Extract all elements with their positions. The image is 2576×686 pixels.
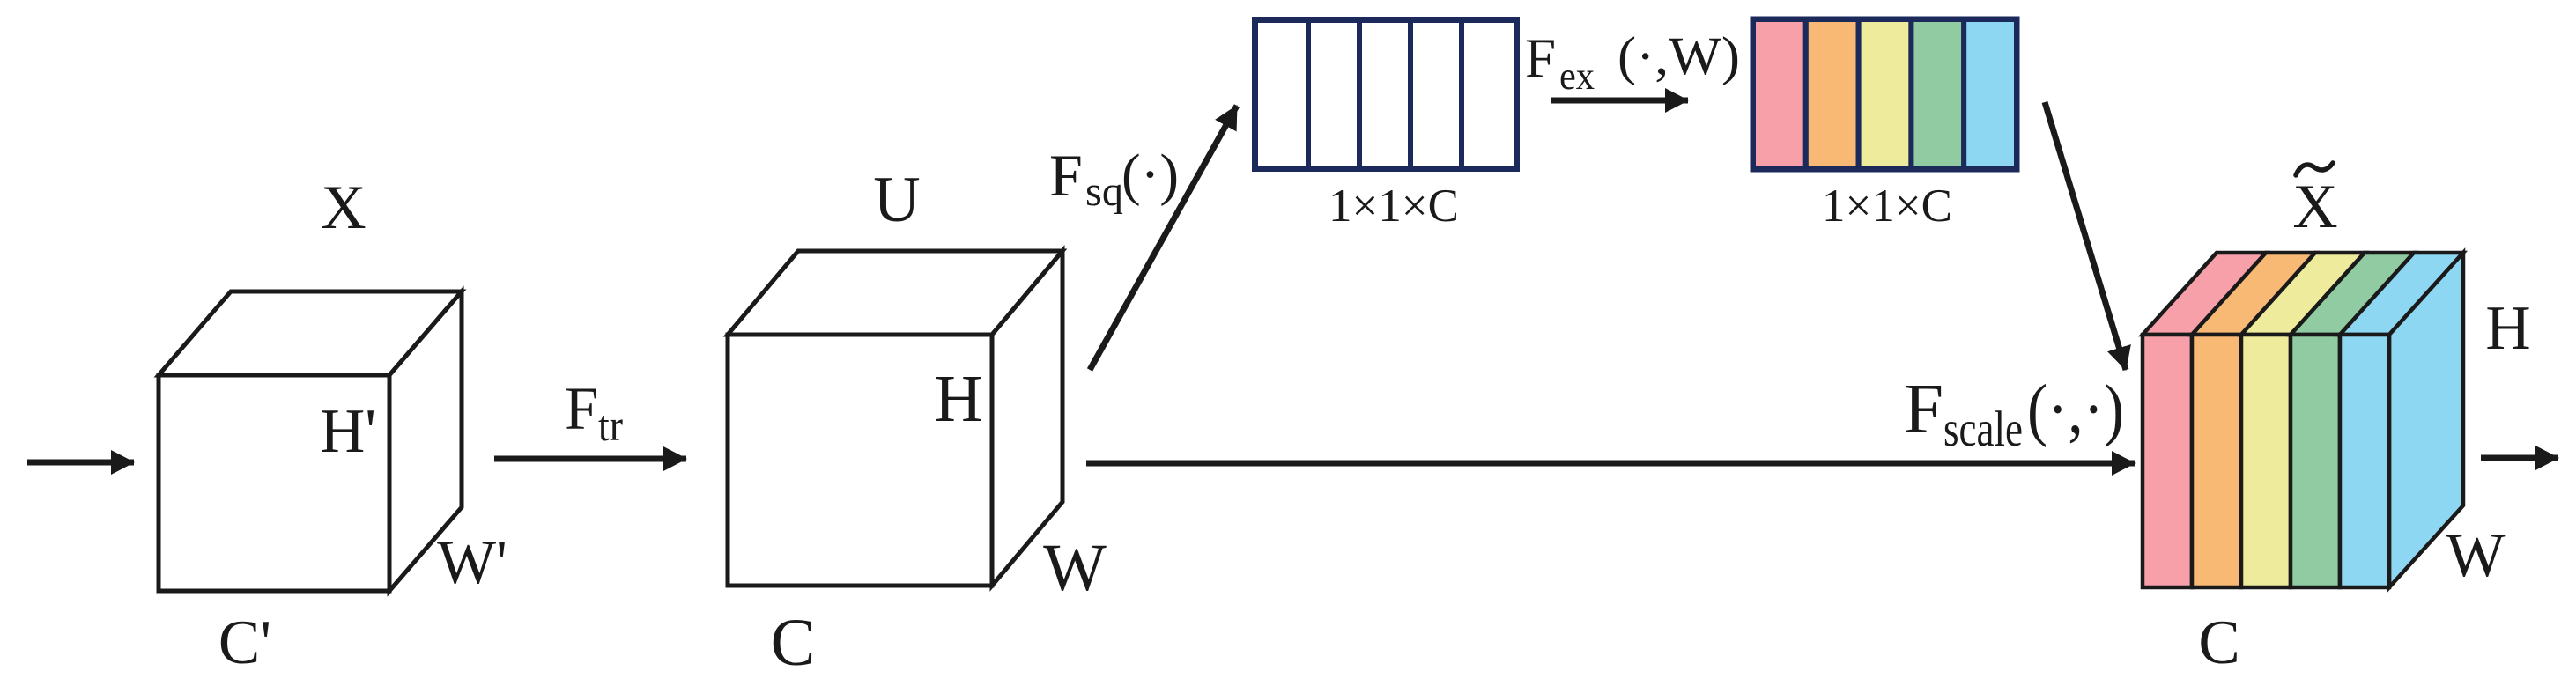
svg-text:X: X <box>321 173 366 242</box>
svg-text:F: F <box>565 375 598 442</box>
svg-text:C': C' <box>218 609 271 677</box>
scaled output cube slabs <box>2143 253 2463 587</box>
wire input arrow <box>27 460 134 466</box>
wire F_scale long arrow <box>1086 461 2135 467</box>
svg-text:W: W <box>1043 531 1107 605</box>
svg-text:scale: scale <box>1943 402 2023 457</box>
svg-text:1×1×C: 1×1×C <box>1822 181 1952 232</box>
svg-text:H: H <box>935 362 983 436</box>
svg-text:tr: tr <box>598 401 623 450</box>
wire F_tr arrow <box>494 456 686 462</box>
svg-text:C: C <box>771 606 816 680</box>
cube X <box>159 291 462 591</box>
svg-text:(·,·): (·,·) <box>2027 372 2124 448</box>
wire F_sq arrow <box>1090 106 1237 370</box>
excitation vector 1x1xC colored cells <box>1753 19 2017 169</box>
svg-text:(·,W): (·,W) <box>1617 27 1740 86</box>
slab yellow <box>2241 253 2365 335</box>
svg-text:C: C <box>2198 609 2239 677</box>
svg-text:ex: ex <box>1559 55 1595 98</box>
svg-text:F: F <box>1049 142 1083 209</box>
svg-text:U: U <box>873 164 920 236</box>
wire excitation-to-cube diagonal arrow <box>2045 102 2126 370</box>
svg-text:H: H <box>2485 294 2530 363</box>
svg-text:F: F <box>1904 369 1943 448</box>
svg-text:sq: sq <box>1085 168 1123 215</box>
svg-text:W': W' <box>437 528 507 597</box>
slab green <box>2291 253 2414 335</box>
wire output arrow <box>2481 455 2558 461</box>
squeeze vector 1x1xC white cells <box>1255 19 1517 169</box>
wire F_ex arrow <box>1551 98 1688 104</box>
cube U <box>728 251 1062 586</box>
slab cyan <box>2340 253 2463 335</box>
svg-text:(·): (·) <box>1121 143 1179 207</box>
svg-text:X: X <box>2292 173 2337 241</box>
slab pink <box>2143 253 2266 335</box>
svg-text:1×1×C: 1×1×C <box>1329 181 1459 232</box>
svg-text:F: F <box>1525 27 1556 89</box>
svg-text:H': H' <box>320 397 376 466</box>
slab orange <box>2192 253 2315 335</box>
svg-text:W: W <box>2446 521 2505 590</box>
